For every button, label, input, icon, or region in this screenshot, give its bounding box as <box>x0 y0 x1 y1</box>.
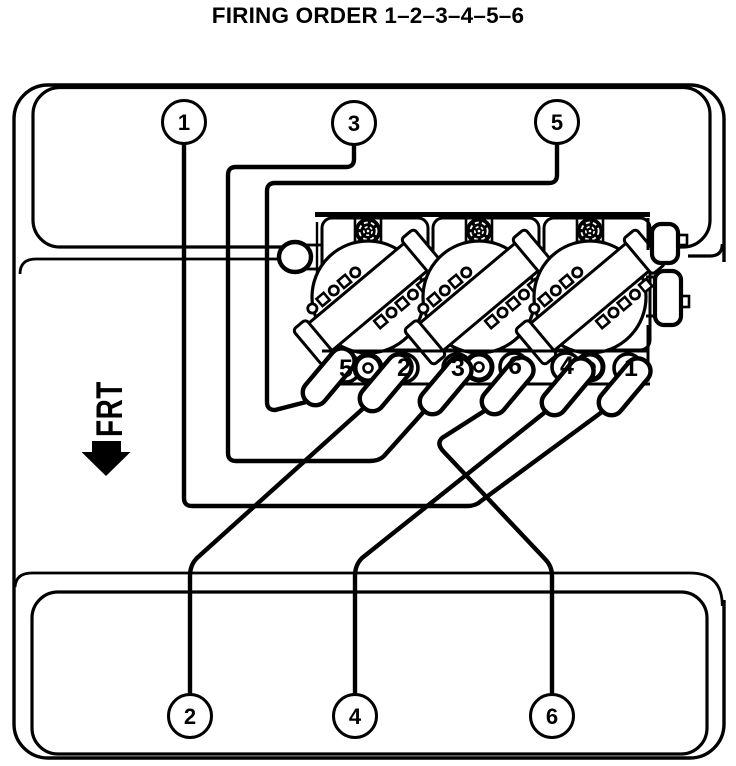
svg-text:FRT: FRT <box>88 381 130 437</box>
cylinder circle 1 <box>163 101 206 144</box>
svg-text:1: 1 <box>624 354 638 382</box>
mounting screw <box>465 217 468 242</box>
svg-text:3: 3 <box>451 354 465 382</box>
spark plug boot 2 <box>355 349 417 416</box>
right connector upper <box>678 235 687 245</box>
FRT arrow <box>82 441 131 476</box>
right connector lower <box>680 296 689 307</box>
svg-text:4: 4 <box>560 352 574 380</box>
coil face circle <box>534 241 646 353</box>
top cover flange line <box>20 259 284 274</box>
svg-text:2: 2 <box>184 704 196 729</box>
svg-text:6: 6 <box>546 704 558 729</box>
wire to plug 1 <box>184 143 606 506</box>
wire to plug 3 <box>228 144 427 461</box>
right side bracket <box>647 218 650 250</box>
bottom valve cover <box>32 592 707 754</box>
plug tower ring <box>500 353 528 381</box>
svg-text:FIRING ORDER 1–2–3–4–5–6: FIRING ORDER 1–2–3–4–5–6 <box>212 3 524 28</box>
mounting screw <box>576 217 579 242</box>
plug tower ring <box>332 354 360 382</box>
wire to plug 2 <box>190 405 367 695</box>
svg-text:6: 6 <box>508 352 522 380</box>
module left edge line <box>316 222 318 273</box>
spark plug boot 3 <box>415 352 477 419</box>
cylinder circle 4 <box>334 695 377 738</box>
plug tower ring <box>443 354 471 382</box>
wire to plug 6 <box>439 408 552 695</box>
tower screw donut <box>355 355 381 381</box>
coil face circle <box>312 241 424 353</box>
module lower flange edge <box>336 383 650 386</box>
mounting screw <box>354 217 357 242</box>
coil module body segment <box>433 218 539 350</box>
wire to plug 4 <box>355 409 549 695</box>
left connector ellipse <box>279 242 311 272</box>
coil module body segment <box>544 218 650 350</box>
module top rail <box>315 212 650 217</box>
cylinder circle 6 <box>531 695 574 738</box>
cylinder circle 2 <box>169 695 212 738</box>
outer boundary upper-right corner into flange <box>688 244 722 256</box>
engine mid split line <box>15 573 722 606</box>
plug tower ring <box>614 354 642 382</box>
coil pack assembly backdrop <box>315 216 650 352</box>
svg-text:5: 5 <box>339 355 353 383</box>
module bottom edge <box>322 350 648 353</box>
wire to plug 5 <box>267 143 557 410</box>
module right edge lower <box>628 325 648 380</box>
spark plug boot 4 <box>537 353 599 420</box>
tower screw donut <box>466 354 492 380</box>
cylinder circle 5 <box>536 101 579 144</box>
plug tower ring <box>552 353 580 381</box>
coil bar <box>287 222 449 372</box>
spark plug boot 1 <box>594 353 656 420</box>
tower screw donut <box>577 354 603 380</box>
svg-text:3: 3 <box>348 111 360 136</box>
svg-text:1: 1 <box>178 110 190 135</box>
svg-text:5: 5 <box>551 110 563 135</box>
coil bar <box>509 222 671 372</box>
spark plug boot 5 <box>298 343 360 410</box>
spark plug boot 6 <box>477 352 539 419</box>
coil bar <box>398 222 560 372</box>
svg-text:2: 2 <box>397 354 411 382</box>
coil face circle <box>423 241 535 353</box>
cylinder circle 3 <box>333 102 376 145</box>
plug tower ring <box>390 354 418 382</box>
coil module body segment <box>322 218 428 350</box>
top valve cover <box>33 88 710 248</box>
left connector neck <box>306 245 324 269</box>
svg-text:4: 4 <box>349 704 362 729</box>
